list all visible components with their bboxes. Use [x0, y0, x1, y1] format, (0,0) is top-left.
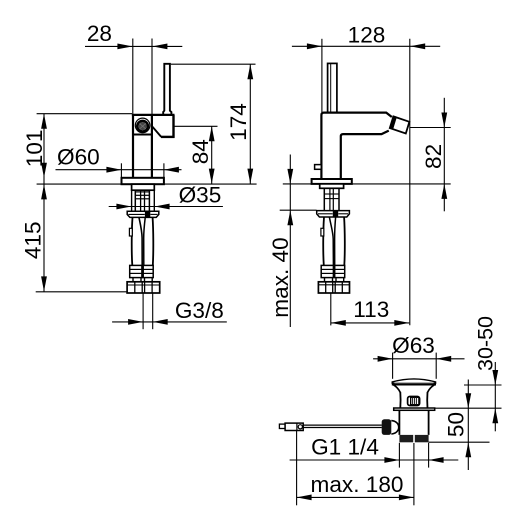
svg-text:50: 50 — [443, 412, 468, 437]
svg-text:101: 101 — [22, 130, 47, 168]
svg-text:max. 40: max. 40 — [268, 237, 293, 317]
svg-text:84: 84 — [188, 139, 213, 164]
svg-text:G1 1/4: G1 1/4 — [311, 435, 379, 460]
svg-text:max. 180: max. 180 — [311, 472, 404, 497]
svg-text:113: 113 — [353, 297, 389, 322]
svg-text:28: 28 — [87, 21, 112, 46]
svg-text:Ø63: Ø63 — [392, 333, 435, 358]
svg-text:G3/8: G3/8 — [175, 298, 224, 323]
svg-text:415: 415 — [21, 221, 46, 259]
svg-text:128: 128 — [348, 23, 386, 48]
svg-text:174: 174 — [226, 103, 251, 141]
svg-text:82: 82 — [421, 144, 446, 169]
svg-text:Ø35: Ø35 — [179, 182, 222, 207]
svg-text:Ø60: Ø60 — [57, 145, 100, 170]
svg-text:30-50: 30-50 — [473, 316, 497, 371]
